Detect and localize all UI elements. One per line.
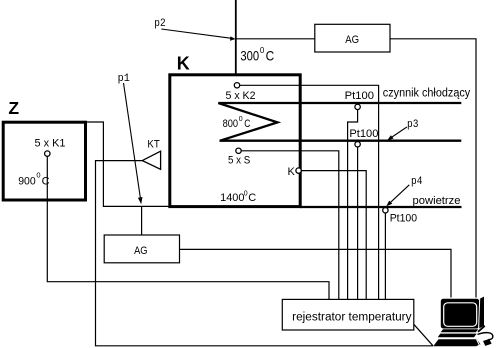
arrow p1 <box>124 83 141 198</box>
svg-text:C: C <box>266 49 275 64</box>
computer monitor <box>441 297 484 329</box>
wire Pt100 no3 to recorder <box>384 213 386 300</box>
svg-text:p3: p3 <box>407 119 418 131</box>
svg-text:Pt100: Pt100 <box>390 212 417 224</box>
arrow p4 <box>391 185 410 202</box>
svg-text:800: 800 <box>223 118 239 130</box>
wire Z to K link <box>86 122 170 206</box>
heat-exchanger chevron <box>218 103 277 141</box>
svg-text:0: 0 <box>260 46 265 55</box>
furnace box Z <box>3 122 85 200</box>
svg-text:AG: AG <box>345 34 359 46</box>
svg-text:5 x S: 5 x S <box>228 154 250 166</box>
svg-text:C: C <box>244 118 250 130</box>
svg-text:AG: AG <box>134 245 147 257</box>
svg-text:300: 300 <box>240 49 259 64</box>
sensor Pt100 no3 <box>383 208 388 213</box>
svg-text:rejestrator temperatury: rejestrator temperatury <box>292 312 412 324</box>
wire p2-node to AG <box>236 38 315 40</box>
furnace box K <box>170 75 300 207</box>
wire junction to AG bottom <box>141 206 143 235</box>
wire KT to computer <box>96 161 434 346</box>
svg-text:p4: p4 <box>411 176 423 188</box>
svg-text:0: 0 <box>244 190 248 197</box>
mouse cable <box>478 333 493 340</box>
svg-text:p2: p2 <box>154 18 165 30</box>
wire K to recorder <box>301 171 366 300</box>
svg-text:5 x K2: 5 x K2 <box>226 90 256 102</box>
svg-text:0: 0 <box>239 116 243 123</box>
node 5xK2 terminal <box>234 83 239 88</box>
computer keyboard <box>433 339 480 346</box>
wire recorder to computer <box>414 324 433 346</box>
node 5xK1 terminal <box>45 151 50 156</box>
svg-text:czynnik chłodzący: czynnik chłodzący <box>383 88 471 100</box>
svg-text:5 x K1: 5 x K1 <box>35 138 66 150</box>
controller AG bottom <box>104 235 179 263</box>
wire p2 feed vertical <box>235 0 237 75</box>
svg-text:KT: KT <box>147 138 160 150</box>
recorder box <box>282 299 414 330</box>
pipe coolant lower <box>220 140 462 142</box>
controller AG top <box>315 24 390 52</box>
computer base <box>438 334 477 338</box>
svg-text:powietrze: powietrze <box>413 195 461 207</box>
svg-text:K: K <box>288 166 296 178</box>
svg-text:1400: 1400 <box>220 192 244 204</box>
svg-text:Pt100: Pt100 <box>345 90 374 102</box>
svg-text:C: C <box>248 192 256 204</box>
node 5xS terminal <box>236 148 241 153</box>
svg-text:C: C <box>42 175 50 187</box>
wire AG bottom to computer <box>180 249 452 297</box>
wire AG to computer <box>390 39 476 298</box>
svg-text:Pt100: Pt100 <box>349 128 378 140</box>
arrow p3 <box>392 127 407 137</box>
wire 5xK1 to recorder <box>47 156 329 299</box>
mouse <box>483 339 492 346</box>
wire 5xK2 to recorder <box>240 85 379 299</box>
svg-text:Z: Z <box>8 98 19 118</box>
pipe coolant upper <box>218 102 461 104</box>
computer stand <box>441 329 479 332</box>
wire Pt100 no2 to recorder <box>357 147 359 300</box>
svg-text:0: 0 <box>36 171 40 180</box>
wire Pt100 no1 to recorder <box>348 109 358 299</box>
svg-text:K: K <box>177 53 190 73</box>
svg-text:900: 900 <box>18 175 36 187</box>
arrow p2 <box>161 29 230 38</box>
wire 5xS to recorder <box>241 151 339 300</box>
pipe air (powietrze) <box>300 206 462 208</box>
